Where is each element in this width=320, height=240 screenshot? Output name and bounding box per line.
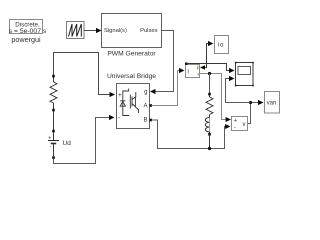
junction node v-signal <box>249 101 252 104</box>
svg-text:i: i <box>188 70 189 76</box>
svg-text:Signal(s): Signal(s) <box>104 28 127 34</box>
wire sawtooth to PWM input <box>84 28 102 33</box>
svg-text:o: o <box>220 42 224 49</box>
svg-text:A: A <box>143 104 147 110</box>
svg-text:-: - <box>234 126 236 132</box>
svg-text:v: v <box>243 122 246 128</box>
junction node current-signal corner <box>185 62 188 65</box>
Scope block <box>235 62 254 87</box>
wire R1 top to bridge + input <box>54 53 116 98</box>
svg-text:g: g <box>144 90 147 96</box>
wire resistor R1 bottom to battery <box>53 111 55 131</box>
powergui block <box>9 20 47 44</box>
load inductor L1 <box>205 118 211 149</box>
wire bridge A output to current measurement input <box>149 68 184 107</box>
bridge internal diode D <box>120 89 129 116</box>
svg-text:+: + <box>234 118 238 124</box>
svg-text:PWM Generator: PWM Generator <box>107 50 156 57</box>
DC source Ud (battery) <box>48 130 71 159</box>
svg-text:powergui: powergui <box>11 35 41 44</box>
Universal Bridge block <box>107 73 156 129</box>
wire bridge B output to bottom rail and voltage - <box>149 119 230 150</box>
To Workspace block io <box>215 36 229 54</box>
wire v output to van and Scope input 2 <box>226 76 264 124</box>
junction node bottom rail <box>208 147 211 150</box>
PWM Generator block U1 <box>102 14 162 58</box>
junction node load-top tap <box>208 72 211 75</box>
svg-text:Universal Bridge: Universal Bridge <box>107 73 156 80</box>
sawtooth source block <box>67 22 85 39</box>
svg-text:Ud: Ud <box>63 140 72 147</box>
wire current measurement signal to io and Scope input 1 <box>185 41 235 73</box>
svg-text:B: B <box>143 118 147 124</box>
current measurement block i <box>186 65 200 78</box>
bridge internal IGBT Q <box>130 92 138 113</box>
resistor R1 (left source resistor) <box>50 75 57 112</box>
wire current measurement - to load top junction and voltage + <box>200 72 231 122</box>
Voltage Measurement block v <box>232 117 248 132</box>
svg-text:-: - <box>50 144 52 150</box>
svg-text:Pulses: Pulses <box>140 28 158 34</box>
To Workspace block van <box>265 92 280 114</box>
svg-text:-: - <box>118 115 120 122</box>
svg-text:+: + <box>118 92 122 99</box>
wire battery bottom to bridge - input <box>54 115 115 164</box>
svg-text:van: van <box>267 101 277 107</box>
load resistor R2 <box>206 93 213 118</box>
wire PWM Pulses to bridge gate g <box>150 31 174 95</box>
